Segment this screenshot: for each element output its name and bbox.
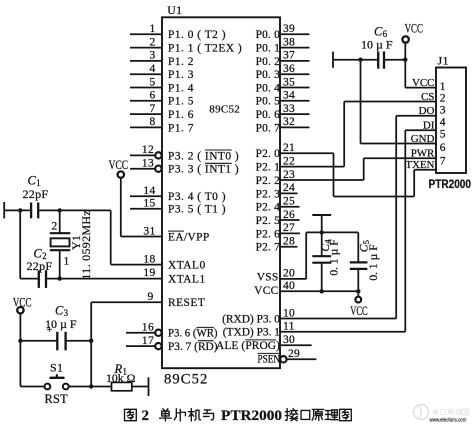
overline for label t4 xyxy=(198,340,214,342)
svg-text:22: 22 xyxy=(283,155,295,167)
switch S1 actuator bar xyxy=(50,377,65,379)
node junction C1-down xyxy=(18,208,22,212)
svg-text:P3. 4 ( T0 ): P3. 4 ( T0 ) xyxy=(168,191,226,203)
IC U1 89C52 body xyxy=(162,17,280,368)
svg-text:6: 6 xyxy=(149,90,155,102)
caption char 原 xyxy=(312,409,323,420)
svg-text:10 µ F: 10 µ F xyxy=(361,38,393,52)
svg-text:P0. 0: P0. 0 xyxy=(256,29,281,41)
wire C3 rail right segment xyxy=(66,340,92,342)
caption char 理 xyxy=(325,410,337,420)
svg-text:89C52: 89C52 xyxy=(164,371,208,387)
wire net DO-RXD horizontal pin 10 xyxy=(280,318,396,320)
svg-text:5: 5 xyxy=(149,76,155,88)
power VCC symbol top xyxy=(402,36,408,42)
svg-text:VCC: VCC xyxy=(109,158,129,172)
wire pin 3 stub xyxy=(130,60,162,62)
svg-text:CS: CS xyxy=(421,91,434,103)
pin 29 inverting bubble xyxy=(280,356,286,362)
svg-text:12: 12 xyxy=(142,144,154,156)
svg-text:23: 23 xyxy=(283,169,295,181)
svg-text:32: 32 xyxy=(283,116,295,128)
wire reset vertical to pin 9 xyxy=(90,302,92,386)
wire net P2.2-PWR vertical xyxy=(363,158,365,180)
wire pin 16 stub xyxy=(126,332,155,334)
caption char 口 xyxy=(301,410,310,419)
svg-text:10k Ω: 10k Ω xyxy=(106,371,136,385)
svg-text:0. 1 µ F: 0. 1 µ F xyxy=(327,239,340,276)
wire pin 15 stub xyxy=(130,208,162,210)
wire PWR stub xyxy=(364,157,436,159)
svg-text:27: 27 xyxy=(283,222,295,234)
wire pin 12 stub xyxy=(130,154,155,156)
wire VSS vertical xyxy=(305,232,307,279)
svg-text:P1. 3: P1. 3 xyxy=(168,69,194,81)
capacitor C6 plates xyxy=(377,52,379,69)
terminal bar right of R1 xyxy=(148,377,150,396)
capacitor C4 bottom lead xyxy=(321,263,323,292)
wire pin 36 stub xyxy=(280,73,310,75)
svg-text:TXEN: TXEN xyxy=(405,159,434,171)
svg-text:21: 21 xyxy=(283,142,295,154)
svg-text:PSEN: PSEN xyxy=(258,354,281,366)
node junction C3 right xyxy=(89,339,93,343)
wire net P2.0-TXEN riser xyxy=(413,170,415,197)
svg-text:P1. 0 ( T2 ): P1. 0 ( T2 ) xyxy=(168,29,226,41)
node junction GND net xyxy=(358,58,362,62)
overline for label t6 xyxy=(258,352,281,354)
svg-text:P1. 4: P1. 4 xyxy=(168,82,194,94)
svg-text:P0. 1: P0. 1 xyxy=(256,43,281,55)
svg-text:4: 4 xyxy=(149,63,155,75)
wire pin 39 stub xyxy=(280,33,310,35)
pin 12 inverting bubble xyxy=(155,152,161,158)
wire pin 29 PSEN stub xyxy=(287,358,317,360)
node junction C3 left xyxy=(18,339,22,343)
wire pin 35 stub xyxy=(280,87,310,89)
wire S1 to R1 xyxy=(69,386,112,388)
pin 16 inverting bubble xyxy=(155,330,161,336)
svg-text:P2. 7: P2. 7 xyxy=(256,242,281,254)
caption char 接 xyxy=(285,409,297,421)
svg-text:37: 37 xyxy=(283,50,295,62)
svg-text:24: 24 xyxy=(283,182,295,194)
svg-text:RST: RST xyxy=(45,392,69,406)
wire pin 6 stub xyxy=(130,100,162,102)
watermark site name xyxy=(432,409,438,416)
wire GND stub xyxy=(361,143,437,145)
wire pin 32 stub xyxy=(280,126,310,128)
svg-text:31: 31 xyxy=(143,225,155,237)
resistor R1 body xyxy=(112,382,132,390)
svg-text:39: 39 xyxy=(283,23,295,35)
crystal Y1 top lead xyxy=(59,210,61,233)
terminal bar left of C1 xyxy=(3,202,5,218)
power VCC symbol reset xyxy=(17,307,23,313)
svg-text:17: 17 xyxy=(142,335,154,347)
wire VCC symbol stem xyxy=(357,291,359,297)
wire pin 17 stub xyxy=(126,345,155,347)
node junction C4 bottom xyxy=(320,289,324,293)
terminal stub bar above C4 xyxy=(312,214,331,216)
svg-text:DI: DI xyxy=(423,120,435,132)
node junction C5 bottom xyxy=(356,289,360,293)
wire VCC net vertical xyxy=(404,60,406,88)
svg-text:VCC: VCC xyxy=(254,285,278,297)
wire left vertical C1-C2 xyxy=(19,210,21,278)
terminal bar left of C6 xyxy=(332,52,334,68)
power VCC symbol at EA xyxy=(118,171,124,177)
wire pin 27 stub xyxy=(280,232,300,234)
crystal Y1 bottom plate xyxy=(50,249,71,251)
svg-text:P1. 1 ( T2EX ): P1. 1 ( T2EX ) xyxy=(168,43,242,55)
caption char 单 xyxy=(160,409,172,421)
wire C2 rail left segment xyxy=(20,278,39,280)
wire R1 to terminal xyxy=(132,386,149,388)
svg-text:11: 11 xyxy=(283,321,295,333)
wire pin 33 stub xyxy=(280,113,310,115)
svg-text:P2. 0: P2. 0 xyxy=(256,148,281,160)
wire pin 22 stub xyxy=(280,166,344,168)
wire C5 top lead xyxy=(357,232,359,262)
wire pin 23 stub xyxy=(280,179,364,181)
switch S1 right terminal xyxy=(63,384,69,390)
overline for label t5 xyxy=(245,339,276,341)
wire pin 25 stub xyxy=(280,206,300,208)
wire pin 5 stub xyxy=(130,87,162,89)
svg-text:1: 1 xyxy=(149,23,155,35)
svg-text:0. 1 µ F: 0. 1 µ F xyxy=(367,244,380,281)
node junction C4 top xyxy=(320,230,324,234)
overline for label t2 xyxy=(168,230,184,232)
terminal stub stem above C4 xyxy=(321,215,323,232)
crystal Y1 body xyxy=(51,238,70,246)
svg-text:P0. 6: P0. 6 xyxy=(256,109,281,121)
watermark logo xyxy=(414,405,429,420)
wire VCC reset vertical xyxy=(19,313,21,386)
svg-text:P2. 1: P2. 1 xyxy=(256,162,281,174)
switch S1 actuator stem xyxy=(56,374,58,378)
svg-text:RESET: RESET xyxy=(168,297,205,309)
wire pin 24 stub xyxy=(280,192,298,194)
wire pin 1 stub xyxy=(130,33,162,35)
svg-text:U1: U1 xyxy=(167,3,182,17)
wire pin 14 stub xyxy=(130,195,162,197)
capacitor C1 plates xyxy=(30,203,32,219)
svg-text:XTAL0: XTAL0 xyxy=(168,260,206,272)
svg-text:36: 36 xyxy=(283,63,295,75)
wire C6 rail right segment xyxy=(384,59,405,61)
switch S1 left terminal xyxy=(45,384,51,390)
power VCC symbol mid xyxy=(355,297,361,303)
svg-text:P2. 6: P2. 6 xyxy=(256,228,281,240)
wire VCC stub xyxy=(405,87,436,89)
svg-text:J1: J1 xyxy=(438,54,449,68)
svg-text:PTR2000: PTR2000 xyxy=(221,408,282,424)
svg-text:VCC: VCC xyxy=(350,304,368,318)
svg-text:VCC: VCC xyxy=(412,77,434,89)
svg-text:P0. 3: P0. 3 xyxy=(256,69,281,81)
wire pin 8 stub xyxy=(130,126,162,128)
wire pin 13 stub xyxy=(130,168,155,170)
wire C1 rail left segment xyxy=(4,209,31,211)
wire net P2.1-CS vertical xyxy=(343,102,345,167)
capacitor C4 plates xyxy=(312,255,331,257)
svg-text:89C52: 89C52 xyxy=(209,103,240,115)
svg-text:P0. 5: P0. 5 xyxy=(256,96,281,108)
svg-text:P2. 5: P2. 5 xyxy=(256,215,281,227)
svg-text:+: + xyxy=(47,325,53,336)
wire pin 4 stub xyxy=(130,73,162,75)
wire net P2.0-TXEN vertical xyxy=(333,153,335,196)
wire pin 38 stub xyxy=(280,47,310,49)
svg-text:13: 13 xyxy=(142,158,154,170)
overline for label t0 xyxy=(205,149,232,151)
svg-text:22pF: 22pF xyxy=(23,187,49,201)
svg-text:38: 38 xyxy=(283,36,295,48)
wire C6 rail left segment xyxy=(333,59,378,61)
svg-text:VCC: VCC xyxy=(13,295,32,309)
svg-text:(RXD) P3. 0: (RXD) P3. 0 xyxy=(222,313,280,325)
svg-text:1: 1 xyxy=(64,256,70,268)
wire pin 21 stub xyxy=(280,152,334,154)
svg-text:www.elecfans.com: www.elecfans.com xyxy=(429,418,467,424)
caption char 图 xyxy=(125,409,137,420)
svg-text:4: 4 xyxy=(440,117,446,129)
capacitor C3 plates xyxy=(56,332,58,351)
svg-text:VSS: VSS xyxy=(257,271,279,283)
wire net DI-TXD vertical xyxy=(404,130,406,332)
caption char 图 second xyxy=(340,409,352,420)
svg-text:22pF: 22pF xyxy=(27,259,53,273)
wire pin 28 stub xyxy=(280,246,298,248)
svg-text:10: 10 xyxy=(283,307,295,319)
svg-text:28: 28 xyxy=(283,236,295,248)
svg-text:P3. 3 ( INT1 ): P3. 3 ( INT1 ) xyxy=(168,164,239,176)
capacitor C2 plates xyxy=(38,270,40,288)
svg-text:GND: GND xyxy=(411,133,435,145)
capacitor C5 bottom lead xyxy=(357,269,359,291)
wire VCC to EA horizontal pin 31 xyxy=(121,236,162,238)
wire pin 34 stub xyxy=(280,100,310,102)
wire TXEN stub xyxy=(414,169,436,171)
wire VCC to EA vertical xyxy=(120,178,122,237)
svg-text:VCC: VCC xyxy=(405,21,423,35)
connector J1 body xyxy=(436,68,466,174)
wire pin 26 stub xyxy=(280,219,300,221)
svg-text:3: 3 xyxy=(440,105,446,117)
wire GND net vertical xyxy=(360,60,362,144)
svg-text:EA/VPP: EA/VPP xyxy=(168,231,210,243)
svg-text:25: 25 xyxy=(283,196,295,208)
svg-text:5: 5 xyxy=(440,128,446,140)
svg-text:11. 0592MHz: 11. 0592MHz xyxy=(79,210,93,280)
wire pin 2 stub xyxy=(130,47,162,49)
svg-text:P1. 7: P1. 7 xyxy=(168,122,194,134)
svg-text:29: 29 xyxy=(288,348,300,360)
svg-text:9: 9 xyxy=(147,291,153,303)
svg-text:35: 35 xyxy=(283,76,295,88)
svg-text:DO: DO xyxy=(419,105,435,117)
node junction VCC top xyxy=(403,58,407,62)
svg-text:PTR2000: PTR2000 xyxy=(429,177,472,191)
svg-text:P2. 2: P2. 2 xyxy=(256,175,281,187)
svg-text:P1. 2: P1. 2 xyxy=(168,56,194,68)
svg-text:2: 2 xyxy=(149,36,155,48)
svg-text:P3. 5 ( T1 ): P3. 5 ( T1 ) xyxy=(168,204,226,216)
wire DO stub xyxy=(396,115,436,117)
wire net P2.0-TXEN horizontal xyxy=(334,196,415,198)
wire VSS rail xyxy=(306,231,358,233)
caption char 机 xyxy=(189,409,201,421)
svg-text:S1: S1 xyxy=(50,360,63,374)
wire C1 rail right segment xyxy=(38,209,111,211)
svg-text:XTAL1: XTAL1 xyxy=(168,273,206,285)
svg-text:P0. 7: P0. 7 xyxy=(256,122,281,134)
crystal Y1 bottom lead xyxy=(59,250,61,278)
node junction reset net xyxy=(89,384,93,388)
svg-text:40: 40 xyxy=(283,280,295,292)
svg-text:26: 26 xyxy=(283,209,295,221)
svg-text:33: 33 xyxy=(283,103,295,115)
wire pin 20 VSS stub xyxy=(280,278,306,280)
pin 13 inverting bubble xyxy=(155,166,161,172)
wire net DI-TXD horizontal pin 11 xyxy=(280,331,405,333)
wire pin 37 stub xyxy=(280,60,310,62)
wire CS stub xyxy=(344,101,436,103)
wire DI stub xyxy=(405,129,436,131)
wire C2 rail right segment (XTAL1 net) xyxy=(46,278,162,280)
wire pin 9 horizontal xyxy=(91,301,162,303)
svg-text:P2. 3: P2. 3 xyxy=(256,188,281,200)
pin 17 inverting bubble xyxy=(155,343,161,349)
svg-text:P2. 4: P2. 4 xyxy=(256,202,281,214)
svg-text:P3. 2 ( INT0 ): P3. 2 ( INT0 ) xyxy=(168,150,239,162)
wire VCC rail pin 40 xyxy=(280,290,358,292)
wire S1 row left xyxy=(20,386,44,388)
svg-text:P0. 2: P0. 2 xyxy=(256,56,281,68)
svg-text:P3. 6 (WR): P3. 6 (WR) xyxy=(168,328,218,340)
svg-text:2: 2 xyxy=(142,408,150,424)
svg-text:34: 34 xyxy=(283,90,295,102)
svg-text:P1. 6: P1. 6 xyxy=(168,109,194,121)
svg-text:7: 7 xyxy=(440,156,446,168)
svg-text:14: 14 xyxy=(143,185,155,197)
svg-text:P1. 5: P1. 5 xyxy=(168,96,194,108)
svg-text:P3. 7 (RD): P3. 7 (RD) xyxy=(168,341,218,353)
capacitor C4 top lead xyxy=(321,232,323,256)
node junction Y1-bottom xyxy=(58,276,62,280)
svg-text:30: 30 xyxy=(283,334,295,346)
svg-text:(TXD) P3. 1: (TXD) P3. 1 xyxy=(223,327,281,339)
svg-text:18: 18 xyxy=(143,253,155,265)
svg-text:2: 2 xyxy=(51,220,57,232)
svg-text:1: 1 xyxy=(440,81,446,93)
svg-text:P0. 4: P0. 4 xyxy=(256,82,281,94)
wire pin 30 ALE stub xyxy=(280,344,312,346)
svg-text:8: 8 xyxy=(149,116,155,128)
svg-text:19: 19 xyxy=(143,267,155,279)
svg-text:15: 15 xyxy=(143,198,155,210)
svg-text:ALE (PROG): ALE (PROG) xyxy=(216,340,280,352)
wire pin 7 stub xyxy=(130,113,162,115)
wire net DO-RXD vertical xyxy=(395,116,397,319)
caption char 与 xyxy=(204,410,214,420)
svg-text:16: 16 xyxy=(142,322,154,334)
wire XTAL0 horizontal to pin 18 xyxy=(111,264,162,266)
overline for label t1 xyxy=(205,162,232,164)
svg-text:3: 3 xyxy=(149,50,155,62)
svg-text:7: 7 xyxy=(149,103,155,115)
svg-text:PWR: PWR xyxy=(411,148,435,160)
overline for label t3 xyxy=(197,326,214,328)
svg-text:20: 20 xyxy=(283,268,295,280)
svg-text:2: 2 xyxy=(440,93,446,105)
wire C3 rail left segment xyxy=(20,340,57,342)
node junction Y1-top xyxy=(58,208,62,212)
svg-text:6: 6 xyxy=(440,142,446,154)
wire XTAL0 corner vertical xyxy=(110,210,112,264)
capacitor C5 plates xyxy=(350,261,368,263)
crystal Y1 top plate xyxy=(50,232,71,234)
wire VCC top stem xyxy=(404,43,406,60)
caption char 片 xyxy=(174,409,185,421)
